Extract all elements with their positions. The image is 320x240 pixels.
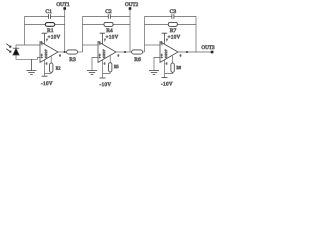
+10V supply stage 2 (100, 33, 119, 44)
wire: feedback left vertical stage 3 (144, 16, 146, 52)
wire: U3 V- pin down to -10V rail (164, 60, 166, 78)
wire: U2 output to R6 (junction with OUT2 stem) (116, 51, 132, 53)
svg-text:R8: R8 (176, 65, 181, 70)
resistor R3 (67, 50, 78, 54)
junction dot at U1 output node (64, 51, 66, 53)
OUT1 terminal (63, 7, 66, 10)
svg-text:R5: R5 (114, 64, 119, 69)
OUT3 terminal (211, 51, 214, 54)
svg-text:-10V: -10V (100, 83, 112, 88)
svg-text:OUT3: OUT3 (201, 45, 215, 51)
wire: U2 V- pin down to -10V rail (102, 60, 104, 78)
svg-text:4: 4 (104, 62, 106, 65)
wire: feedback left vertical stage 2 (82, 16, 84, 52)
wire: R7 row stage 3 (145, 23, 197, 25)
wire: feedback right vertical stage 2 / OUT2 stem (129, 10, 131, 52)
wire: U3 non-inverting input to ground (154, 57, 160, 70)
svg-text:6: 6 (180, 55, 182, 58)
svg-text:R4: R4 (106, 28, 113, 34)
resistor R4 (104, 22, 113, 26)
junction dot at U2 output node (124, 51, 126, 53)
svg-text:C1: C1 (45, 9, 52, 15)
svg-text:4: 4 (46, 62, 48, 65)
svg-text:R3: R3 (69, 57, 76, 63)
svg-text:OP27: OP27 (164, 49, 168, 58)
-10V supply stage 2 (100, 78, 112, 88)
op-amp U3 (160, 42, 178, 63)
wire: R6 to stage 3 summing node (143, 51, 145, 53)
svg-text:-10V: -10V (161, 83, 173, 88)
-10V supply stage 1 (41, 76, 53, 87)
resistor R1 (45, 23, 54, 27)
svg-text:C3: C3 (170, 9, 177, 15)
svg-text:OUT1: OUT1 (56, 2, 70, 8)
wire: R3 to stage 2 summing node (78, 51, 83, 53)
svg-text:+10V: +10V (106, 36, 119, 41)
photodiode D1 (13, 48, 19, 55)
wire: stage 2 inverting input rail (83, 44, 99, 46)
+10V supply stage 1 (42, 33, 61, 44)
resistor R2 (vertical, to -10V rail) (45, 56, 53, 74)
-10V supply stage 3 (161, 78, 173, 88)
wire: R1 row stage 1 (25, 23, 65, 25)
resistor R5 (vertical, to -10V rail) (103, 56, 112, 74)
junction dot at U3 output node (186, 51, 188, 53)
wire: C1 row stage 1 (25, 15, 65, 17)
wire: photodiode cathode to U1 inverting input rail (16, 45, 40, 48)
wire: U1 output to R3 (junction with OUT1 stem) (58, 51, 67, 53)
svg-text:OP27: OP27 (44, 49, 48, 58)
resistor R8 (vertical, to -10V rail) (165, 56, 175, 74)
svg-text:C2: C2 (105, 9, 112, 15)
svg-text:OP27: OP27 (102, 49, 106, 58)
wire: feedback left vertical stage 1 (24, 16, 26, 45)
+10V supply stage 3 (162, 33, 181, 44)
svg-text:R2: R2 (56, 66, 61, 71)
wire: C2 row stage 2 (83, 15, 131, 17)
resistor R6 (132, 50, 143, 54)
wire: U3 output to OUT3 terminal (junction with feedback vertical) (178, 51, 213, 53)
ground G2 (87, 71, 97, 75)
capacitor C2 (108, 14, 110, 19)
svg-text:+10V: +10V (168, 36, 181, 41)
op-amp U1 (40, 42, 58, 63)
svg-text:R1: R1 (47, 28, 54, 34)
capacitor C3 (172, 14, 174, 19)
wire: photodiode anode rail to U1 non-inverting input (16, 55, 40, 59)
wire: U2 non-inverting input to ground (92, 57, 98, 70)
light arrows into photodiode D1 (6, 44, 11, 53)
ground G3 (149, 71, 159, 75)
ground G1 (27, 59, 37, 74)
op-amp U2 (98, 42, 116, 63)
svg-text:R7: R7 (170, 28, 177, 34)
svg-text:+10V: +10V (48, 36, 61, 41)
wire: feedback right vertical stage 3 (195, 16, 197, 52)
wire: feedback right vertical stage 1 / OUT1 stem (64, 10, 66, 52)
svg-text:R6: R6 (134, 57, 141, 63)
wire: U1 V- pin down to -10V rail (44, 60, 46, 76)
svg-text:4: 4 (166, 62, 168, 65)
wire: R4 row stage 2 (83, 23, 131, 25)
svg-text:-10V: -10V (41, 82, 53, 87)
svg-text:6: 6 (59, 55, 61, 58)
svg-text:OUT2: OUT2 (125, 2, 139, 8)
resistor R7 (168, 22, 177, 26)
wire: C3 row stage 3 (145, 15, 197, 17)
svg-text:6: 6 (118, 55, 120, 58)
wire: stage 3 inverting input rail (145, 44, 161, 46)
OUT2 terminal (129, 7, 132, 10)
capacitor C1 (49, 14, 51, 19)
